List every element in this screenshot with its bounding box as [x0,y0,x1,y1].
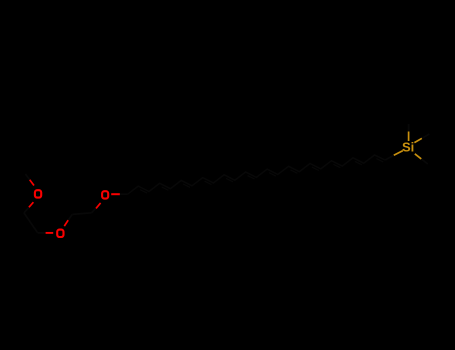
wire: C4 to O3 bond, carbon half (dark) [92,208,97,213]
wire: O2 up-right bond, carbon half (dark) [68,214,72,220]
wire: double bond tick 2 (dark) [162,187,169,190]
node O1: oxygen atom label [35,190,41,197]
wire: double bond tick 10 (dark) [333,164,340,167]
wire: double bond tick 12 (dark) [376,159,383,162]
svg-text:Si: Si [402,139,414,154]
wire: chain to Si bond, silicon half (gold) [394,151,403,156]
wire: methyl CH3 to O1, oxygen half (red) [30,180,34,186]
wire: double bond tick 3 (dark) [183,184,190,187]
wire: Si down-right methyl bond, carbon half (dark) [421,159,428,164]
wire: C2 to O2 horizontal bond, oxygen half (red) [46,232,54,234]
node O2: oxygen atom label [57,230,63,237]
wire: polyene chain zigzag (dark) [128,155,386,194]
wire: O3 to chain horizontal bond, oxygen half (red) [111,193,120,195]
wire: O3 to chain horizontal bond, carbon half (dark) [120,193,128,195]
wire: O1 down-left bond, oxygen half (red) [29,202,34,207]
wire: double bond tick 4 (dark) [205,181,212,184]
wire: O1 down-left bond, carbon half (dark) [24,207,29,213]
wire: Si up methyl bond, carbon half (dark) [408,124,410,132]
wire: C3 to C4 bond (dark) [72,213,91,215]
wire: Si up-right methyl bond, silicon half (gold) [414,138,422,142]
wire: C4 to O3 bond, oxygen half (red) [96,203,101,209]
wire: double bond tick 5 (dark) [226,178,233,181]
wire: C2 to O2 horizontal bond, carbon half (dark) [38,232,46,234]
wire: double bond tick 11 (dark) [355,161,362,164]
wire: C1 to C2 bond (dark) [24,213,38,233]
wire: methyl CH3 to O1, carbon half (dark) [25,174,29,180]
wire: double bond tick 9 (dark) [312,167,319,170]
wire: double bond tick 8 (dark) [291,170,298,173]
wire: double bond tick 1 (dark) [140,190,147,193]
wire: chain to Si bond, carbon half (dark) [385,155,394,160]
wire: double bond tick 7 (dark) [269,173,276,176]
wire: Si up-right methyl bond, carbon half (dark) [422,134,429,138]
wire: O2 up-right bond, oxygen half (red) [64,220,68,226]
wire: double bond tick 6 (dark) [248,176,255,179]
node O3: oxygen atom label [102,191,108,198]
wire: Si down-right methyl bond, silicon half (gold) [415,154,422,159]
wire: Si up methyl bond, silicon half (gold) [408,132,410,142]
